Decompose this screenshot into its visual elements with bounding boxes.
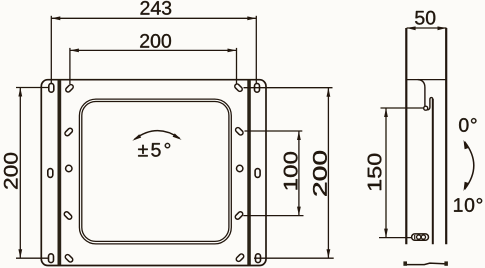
- label 243: [141, 1, 172, 15]
- extension line 100 upper: [245, 130, 303, 132]
- front view plate outline: [41, 80, 266, 266]
- pill inner circle b: [421, 235, 425, 239]
- side view left edge: [405, 28, 407, 244]
- side view top edge / dimension line 50: [407, 26, 447, 30]
- extension line 150 lower: [379, 237, 413, 239]
- oval hole top-left: [49, 83, 54, 92]
- dimension line 200 left: [18, 88, 22, 259]
- bottom slot pill side view: [412, 234, 429, 240]
- extension line 200 left upper: [16, 87, 48, 89]
- dimension line 150: [384, 108, 388, 238]
- left rail bar: [58, 80, 62, 266]
- extension line 100 lower: [243, 215, 303, 217]
- hole right circle: [237, 165, 243, 171]
- extension line 243 left: [50, 16, 52, 84]
- oval hole mid-left: [48, 169, 53, 178]
- extension line 243 right: [255, 16, 257, 84]
- tilt arc arrow side view: [464, 140, 474, 191]
- oval hole mid-right: [255, 169, 260, 178]
- dimension line 243: [51, 16, 256, 20]
- hole left circle: [66, 165, 72, 171]
- extension line 200 top right: [236, 48, 238, 84]
- slot left 5: [64, 254, 73, 263]
- pill inner dash: [414, 235, 416, 239]
- side view plate top edge line: [406, 79, 446, 81]
- label 0 deg: [459, 118, 476, 132]
- label 200 left rotated: [4, 153, 18, 189]
- label plus-minus 5 deg: [138, 143, 170, 157]
- tilt arc arrow plus-minus 5 deg: [132, 131, 181, 141]
- pill inner circle a: [417, 235, 421, 239]
- dimension line 100: [297, 131, 301, 216]
- side view inner long line: [432, 99, 434, 244]
- oval hole top-right: [255, 83, 260, 92]
- bottom edge right stub: [444, 261, 448, 265]
- extension line 200 right upper: [244, 87, 333, 89]
- slot right 1: [234, 83, 243, 92]
- side view bottom edge with kink: [405, 263, 446, 265]
- label 100 rotated: [284, 152, 298, 190]
- slot left 1: [65, 84, 74, 93]
- label 200 right rotated: [313, 151, 327, 196]
- extension line 150 upper: [381, 107, 424, 109]
- right rail bar: [247, 80, 251, 266]
- dimension line 200 top: [70, 49, 237, 53]
- side view right edge: [445, 28, 447, 244]
- inner opening outer contour: [79, 99, 231, 244]
- slot left 2: [64, 127, 73, 136]
- label 200 top: [140, 34, 171, 48]
- hook hole circle: [424, 106, 428, 110]
- label 10 deg: [454, 198, 482, 212]
- oval hole bottom-left: [49, 254, 54, 263]
- extension line 200 right lower: [254, 257, 334, 259]
- inner opening inner contour: [82, 102, 229, 242]
- slot left 4: [63, 211, 72, 220]
- oval hole bottom-right: [256, 254, 261, 263]
- label 50: [415, 11, 435, 25]
- label 150 rotated: [368, 154, 382, 190]
- slot right 2: [235, 127, 244, 136]
- bottom edge left stub: [403, 261, 407, 265]
- slot right 5: [235, 253, 244, 262]
- slot right 4: [234, 211, 243, 220]
- extension line 200 top left: [69, 48, 71, 84]
- extension line 200 left lower: [16, 257, 49, 259]
- side view hook profile: [418, 80, 433, 110]
- dimension line 200 right: [327, 88, 331, 259]
